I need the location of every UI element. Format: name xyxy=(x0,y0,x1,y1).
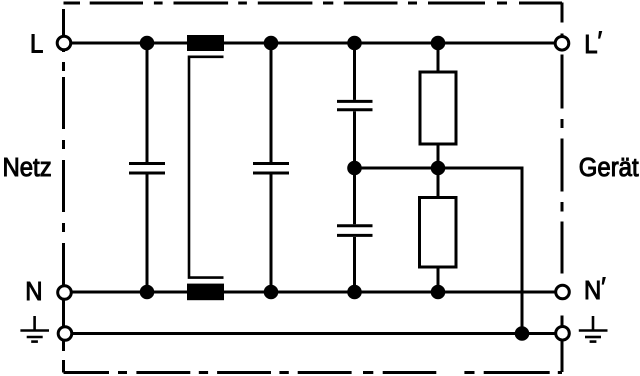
svg-text:L: L xyxy=(30,30,43,59)
svg-text:Gerät: Gerät xyxy=(579,153,639,182)
svg-text:L′: L′ xyxy=(584,26,602,59)
svg-text:N′: N′ xyxy=(584,273,606,306)
svg-text:N: N xyxy=(25,277,42,306)
svg-text:Netz: Netz xyxy=(3,153,52,182)
